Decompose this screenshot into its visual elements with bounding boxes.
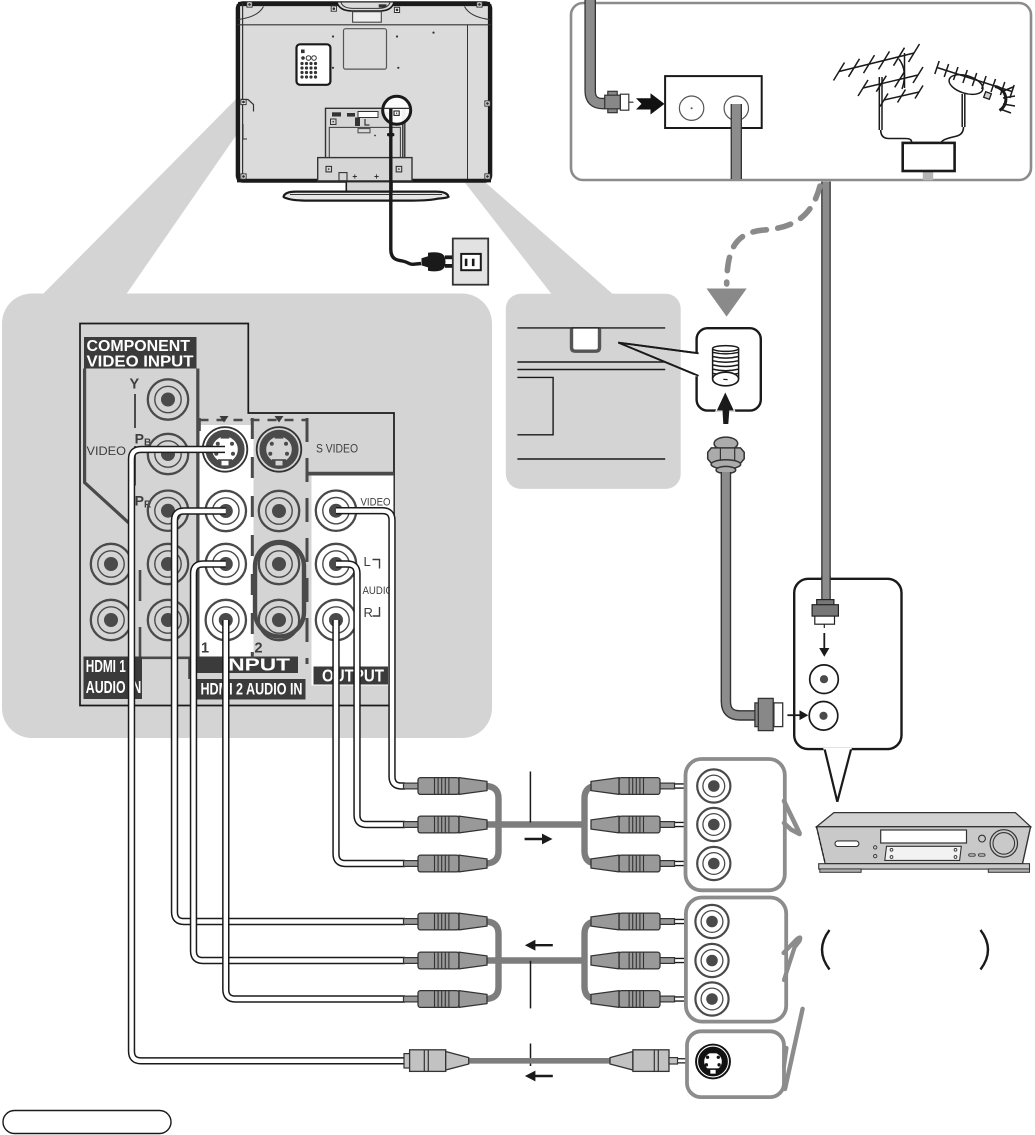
VCR front face bbox=[817, 827, 1031, 864]
wire OUTPUT AUDIO L bbox=[336, 564, 405, 825]
wire plug to jack bbox=[672, 919, 714, 924]
S-video connector input 2 bbox=[257, 427, 302, 472]
OUTPUT area top border bbox=[306, 472, 394, 476]
labels bbox=[87, 377, 394, 657]
TV control pad bbox=[297, 44, 331, 85]
terminal block outline bbox=[80, 324, 394, 706]
dashed input marks bbox=[200, 418, 308, 664]
COMPONENT area outline bbox=[85, 369, 198, 658]
parentheses bbox=[822, 930, 988, 970]
RCA plug right bbox=[591, 855, 675, 872]
svg-text:1: 1 bbox=[201, 641, 209, 657]
TV screws bbox=[241, 2, 490, 179]
output to VCR cable bus bbox=[485, 786, 597, 864]
RCA plug left bbox=[404, 778, 488, 795]
left arrow group 3 bbox=[525, 1071, 553, 1082]
s-video cable bbox=[466, 1058, 613, 1064]
s-video jack in balloon bbox=[696, 1045, 730, 1079]
wire plug to jack bbox=[672, 861, 714, 866]
RCA plug left bbox=[404, 816, 488, 833]
cable from F plug down and right bbox=[726, 472, 756, 715]
antenna terminal square on side panel bbox=[572, 328, 600, 351]
RF balloon bbox=[794, 579, 901, 802]
callout beam from TV to AV terminal panel bbox=[41, 89, 253, 296]
RCA plug right bbox=[591, 778, 675, 795]
right arrow group 1 bbox=[525, 834, 553, 845]
TV stand recess bbox=[318, 108, 412, 181]
RCA plug right bbox=[591, 913, 675, 930]
power plug bbox=[422, 252, 453, 271]
wire INPUT1 AUDIO L bbox=[194, 564, 406, 961]
threaded F terminal bbox=[713, 346, 739, 386]
wire INPUT1 AUDIO R bbox=[226, 620, 405, 999]
svg-text:L: L bbox=[364, 554, 371, 569]
wall outlet bbox=[453, 239, 488, 285]
up arrow into balloon bbox=[717, 393, 734, 425]
RCA jacks on terminal block bbox=[91, 379, 356, 640]
HDMI 1 AUDIO IN bar bbox=[84, 656, 143, 699]
wire S VIDEO input to bottom cable bbox=[132, 449, 408, 1060]
F connector at cable end bbox=[755, 698, 783, 730]
VHF antenna bbox=[834, 44, 924, 144]
power cord bbox=[387, 109, 421, 265]
wire s-video plug to jack bbox=[676, 1058, 714, 1063]
left arrow group 2 bbox=[525, 940, 553, 951]
RF IN jack 1 bbox=[810, 665, 839, 694]
svg-text:OUTPUT: OUTPUT bbox=[322, 666, 384, 686]
RCA plug left bbox=[404, 855, 488, 872]
VCR base and feet bbox=[819, 864, 1030, 873]
TV wall hook bbox=[241, 100, 254, 140]
input column arrows bbox=[220, 416, 284, 423]
RF IN jack 2 bbox=[809, 702, 838, 731]
dashed reroute curve bbox=[707, 186, 821, 317]
circle callout on TV bbox=[383, 96, 411, 124]
RCA plug left bbox=[404, 952, 488, 969]
svg-text:COMPONENT: COMPONENT bbox=[87, 338, 191, 355]
INPUT 2 stadium outline bbox=[255, 542, 304, 637]
break line group 1 bbox=[529, 772, 531, 823]
wire INPUT1 VIDEO bbox=[175, 511, 406, 922]
Y PB PR bracket line bbox=[134, 394, 136, 486]
black arrow to wall plate bbox=[636, 93, 665, 114]
bottom label pill bbox=[3, 1111, 171, 1134]
RCA plug right bbox=[591, 816, 675, 833]
wire OUTPUT VIDEO bbox=[336, 511, 405, 786]
antenna combiner box bbox=[903, 143, 955, 180]
svg-text:HDMI 2 AUDIO IN: HDMI 2 AUDIO IN bbox=[201, 680, 303, 699]
VCR top face bbox=[817, 813, 1031, 827]
COMPONENT VIDEO INPUT bar bbox=[84, 337, 197, 370]
VCR front details bbox=[835, 830, 1018, 861]
RCA plug right bbox=[591, 991, 675, 1008]
balloon jacks group 1 bbox=[697, 769, 730, 802]
TV panel dots bbox=[332, 31, 435, 68]
break line group 3 bbox=[530, 1044, 532, 1067]
side panel detail gray panel bbox=[506, 294, 681, 489]
RCA plug right bbox=[591, 952, 675, 969]
UHF antenna bbox=[935, 61, 1015, 144]
F connector on cable bbox=[605, 91, 634, 112]
wire plug to jack bbox=[672, 996, 714, 1001]
svg-text:VIDEO INPUT: VIDEO INPUT bbox=[87, 353, 195, 370]
svg-text:S VIDEO: S VIDEO bbox=[316, 444, 358, 456]
svg-text:INPUT: INPUT bbox=[222, 655, 290, 675]
balloon VCR video audio out bbox=[686, 898, 800, 1022]
s-video plug left bbox=[404, 1050, 469, 1072]
TV top handle bbox=[337, 3, 394, 23]
svg-text:VIDEO: VIDEO bbox=[361, 497, 391, 509]
svg-text:HDMI 1: HDMI 1 bbox=[86, 656, 126, 676]
TV VESA square bbox=[344, 29, 387, 69]
svg-text:R: R bbox=[364, 605, 373, 620]
side panel detail lines bbox=[517, 328, 665, 459]
wire OUTPUT AUDIO R bbox=[336, 620, 405, 864]
svg-text:VIDEO: VIDEO bbox=[87, 446, 127, 458]
svg-text:2: 2 bbox=[255, 641, 263, 657]
F terminal balloon bbox=[618, 328, 761, 410]
white strip INPUT 1 column bbox=[200, 425, 254, 657]
S-video connector input 1 bbox=[203, 427, 248, 472]
down arrow in RF balloon bbox=[819, 633, 829, 657]
antenna wall panel frame bbox=[571, 3, 1031, 180]
white OUTPUT area bbox=[312, 476, 394, 686]
break line group 2 bbox=[530, 961, 532, 1009]
HDMI group divider bbox=[140, 570, 190, 679]
OUTPUT bar bbox=[314, 666, 389, 686]
balloon VCR video audio in bbox=[686, 759, 800, 890]
balloon s-video bbox=[687, 1009, 803, 1097]
TV stand neck and base bbox=[284, 182, 449, 200]
callout beam from circle to side panel detail bbox=[410, 112, 615, 296]
antenna cable from top left bbox=[590, 0, 605, 104]
HDMI 2 AUDIO IN bar bbox=[197, 679, 306, 700]
wall plate bbox=[665, 76, 762, 128]
balloon jacks group 2 bbox=[695, 905, 728, 938]
long antenna cable down right side bbox=[821, 182, 831, 600]
TV back body bbox=[237, 3, 491, 182]
VCR to input cable bus bbox=[485, 922, 597, 1000]
s-video plug right bbox=[610, 1050, 678, 1072]
RCA plug left bbox=[404, 913, 488, 930]
wire plug to jack bbox=[672, 822, 714, 827]
cable into RF balloon bbox=[821, 576, 831, 600]
INPUT bar bbox=[197, 655, 298, 675]
RCA plug left bbox=[404, 991, 488, 1008]
F plug below balloon bbox=[708, 437, 745, 474]
small arrow into RF IN jack bbox=[787, 710, 808, 720]
wire plug to jack bbox=[672, 958, 714, 963]
callout wedge lines to F terminal balloon bbox=[618, 343, 697, 376]
F plug inside RF balloon bbox=[812, 600, 838, 628]
svg-text:Y: Y bbox=[130, 377, 140, 393]
L R bracket marks bbox=[373, 560, 380, 617]
cable from wall plate down bbox=[731, 104, 742, 179]
wire plug to jack bbox=[672, 783, 714, 788]
AV terminals gray panel bbox=[2, 294, 492, 739]
